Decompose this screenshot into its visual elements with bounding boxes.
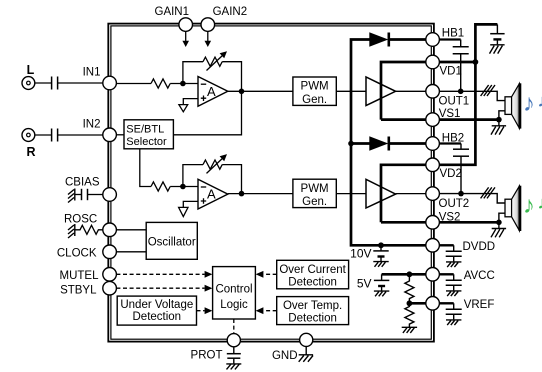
pin VD2 <box>426 158 440 172</box>
svg-text:GND: GND <box>272 350 298 362</box>
pin VREF <box>426 297 440 311</box>
node dot CB1/OUT1 <box>458 89 464 95</box>
svg-text:HB1: HB1 <box>442 28 464 40</box>
wire IN1 to R-in1 <box>116 83 151 85</box>
speaker 2 driver <box>505 199 512 217</box>
wire R-in2 to op-amp A2 <box>170 186 198 188</box>
svg-text:5V: 5V <box>357 277 372 291</box>
node dot 10V cap <box>378 242 384 248</box>
bootstrap diode D2 <box>369 136 388 151</box>
pin IN2 <box>103 128 117 142</box>
speaker 2 cone <box>512 186 520 231</box>
svg-text:VREF: VREF <box>464 299 495 311</box>
wire A2 + input to ground <box>183 201 198 207</box>
resistor R-in2 <box>151 182 170 191</box>
dashed Under Voltage Detection to Control Logic <box>197 310 205 312</box>
svg-text:PWM: PWM <box>301 183 329 195</box>
pin VS2 <box>426 216 440 230</box>
svg-text:Selector: Selector <box>126 136 167 148</box>
wire C-bias to CBIAS pin <box>88 194 104 196</box>
pin AVCC <box>426 268 440 282</box>
AVCC external cap wire (thick) <box>439 273 453 275</box>
VREF rail (thick) <box>409 302 425 305</box>
pin OUT2 <box>426 187 440 201</box>
Under Voltage Detection box <box>117 296 196 325</box>
PWM Gen 2 box <box>293 179 336 207</box>
svg-text:♫: ♫ <box>537 90 542 111</box>
wire R-in1 to op-amp A1 <box>170 83 198 85</box>
variable resistor RF2 <box>203 160 222 169</box>
op-amp A1 <box>198 77 228 107</box>
svg-text:PWM: PWM <box>301 81 329 93</box>
svg-text:VD2: VD2 <box>440 168 462 180</box>
AVCC 5V internal rail (thick) <box>382 273 426 276</box>
svg-text:A: A <box>207 84 216 99</box>
svg-text:MUTEL: MUTEL <box>60 270 100 282</box>
svg-text:CBIAS: CBIAS <box>65 177 100 189</box>
capacitor C-in2 <box>51 129 53 142</box>
wire A1 output to PWM Gen 1 <box>228 90 293 92</box>
power stage triangle 1 <box>366 77 396 106</box>
svg-text:DVDD: DVDD <box>463 241 496 253</box>
resistor divider R1 <box>405 274 414 303</box>
GAIN1 arrow <box>185 31 187 41</box>
feedback wire A2 <box>183 165 242 194</box>
wire ROSC to Oscillator <box>116 229 146 231</box>
node dot divider top <box>407 271 413 277</box>
svg-text:PROT: PROT <box>191 350 223 362</box>
node dot VREF tap <box>407 300 413 306</box>
speaker 1 driver <box>505 97 512 115</box>
svg-text:OUT1: OUT1 <box>439 96 470 108</box>
svg-text:Over Temp.: Over Temp. <box>283 300 342 312</box>
op-amp A2 <box>198 179 228 209</box>
svg-text:OUT2: OUT2 <box>439 198 470 210</box>
PWM Gen 1 box <box>293 77 336 105</box>
svg-text:R: R <box>26 145 35 159</box>
pin HB1 <box>426 33 440 47</box>
pin VS1 <box>426 113 440 127</box>
svg-text:VS1: VS1 <box>439 108 461 120</box>
wire L to C-in1 <box>35 82 51 84</box>
svg-text:Logic: Logic <box>220 299 248 311</box>
ground VS2 <box>491 222 506 237</box>
arrow RF2 <box>207 158 224 174</box>
svg-text:STBYL: STBYL <box>60 284 97 296</box>
resistor R-osc <box>75 225 103 234</box>
pin PROT <box>227 334 240 347</box>
dashed Over Temp Detection to Control Logic <box>263 310 276 312</box>
pin GAIN1 <box>179 18 193 32</box>
svg-text:HB2: HB2 <box>442 132 464 144</box>
capacitor 10V (polarized) <box>380 245 382 250</box>
capacitor top-right (polarized) <box>496 24 498 33</box>
svg-text:Control: Control <box>215 283 252 295</box>
node dot A2 inverting input <box>180 184 186 190</box>
ground DVDD cap <box>446 262 461 267</box>
variable resistor RF1 <box>203 57 222 66</box>
wire speaker 2 bottom to VS2 <box>499 213 505 222</box>
wire BTL link <box>173 91 241 135</box>
IC inner border <box>111 26 431 339</box>
ground 5V cap <box>374 291 389 296</box>
ground triangle A2 <box>179 207 188 216</box>
bootstrap capacitor CB1 <box>460 40 462 47</box>
node dot CB2/OUT2 <box>458 191 464 197</box>
arrow RF1 <box>207 55 224 71</box>
dashed Control Logic to PROT <box>233 319 235 334</box>
wire D2 to HB2 <box>389 142 426 145</box>
ground triangle A1 <box>179 105 188 112</box>
power stage box 1 (VD1/VS1 rails) <box>381 62 426 120</box>
wire rail to D2 <box>351 142 370 145</box>
svg-text:CLOCK: CLOCK <box>57 248 97 260</box>
DVDD external cap wire (thick) <box>439 244 453 246</box>
ground PROT <box>226 364 241 370</box>
svg-text:♪: ♪ <box>523 90 535 117</box>
feedback wire A1 <box>183 62 242 92</box>
svg-text:SE/BTL: SE/BTL <box>126 123 164 135</box>
svg-text:GAIN2: GAIN2 <box>213 6 248 18</box>
wire HB2 to bootstrap cap 2 <box>439 142 461 144</box>
svg-text:Detection: Detection <box>288 276 337 288</box>
10V internal rail (thick) <box>351 40 426 246</box>
ground (CBIAS, left-facing) <box>68 189 75 203</box>
resistor divider R2 <box>405 303 414 327</box>
RCA jack R <box>22 129 35 142</box>
dashed STBYL to Control Logic <box>116 287 204 289</box>
svg-text:AVCC: AVCC <box>464 270 495 282</box>
pin GAIN2 <box>201 18 215 32</box>
ground VREF cap <box>446 320 461 325</box>
power stage triangle 2 <box>366 179 396 208</box>
svg-text:L: L <box>27 63 35 77</box>
pin VD1 <box>426 55 440 69</box>
wire IN2 to SE/BTL <box>116 134 124 136</box>
ferrite bead OUT1 <box>481 85 495 96</box>
ground GND pin <box>299 346 313 362</box>
pin CBIAS <box>103 188 117 202</box>
pin DVDD <box>426 239 440 253</box>
svg-text:Detection: Detection <box>288 313 337 325</box>
dashed MUTEL to Control Logic <box>116 273 204 275</box>
VD1 tap to boost rail (thick) <box>439 61 476 64</box>
resistor R-in1 <box>151 79 170 88</box>
Control Logic box <box>213 267 256 319</box>
RCA jack L <box>22 77 35 90</box>
VS2 rail (thick) <box>439 221 499 224</box>
svg-text:IN1: IN1 <box>83 67 101 79</box>
VREF external cap wire (thick) <box>439 302 453 304</box>
wire C-in2 to IN2 <box>58 134 103 136</box>
node dot A1 output <box>239 89 245 95</box>
wire OUT1 from stage 1 <box>396 90 426 92</box>
wire speaker 1 bottom to VS1 <box>499 111 505 120</box>
capacitor C-in1 <box>51 77 53 90</box>
Over Current Detection box <box>277 260 349 289</box>
wire A2 output to PWM Gen 2 <box>228 193 293 195</box>
svg-text:Oscillator: Oscillator <box>148 236 196 248</box>
node dot VD1 tap <box>473 59 479 65</box>
svg-text:Over Current: Over Current <box>279 264 346 276</box>
capacitor PROT <box>233 347 235 353</box>
dashed Over Current Detection to Control Logic <box>263 273 276 275</box>
external boost rail (thick vertical) <box>439 24 497 164</box>
wire D1 to HB1 <box>389 38 426 41</box>
svg-text:Gen.: Gen. <box>302 94 327 106</box>
pin STBYL <box>103 281 117 295</box>
wire C-in1 to IN1 <box>58 82 103 84</box>
svg-text:Gen.: Gen. <box>302 196 327 208</box>
node dot 10V rail / D2 <box>348 141 354 147</box>
node dot A1 inverting input <box>180 81 186 87</box>
wire OUT2 to speaker <box>439 194 504 203</box>
pin OUT1 <box>426 85 440 99</box>
ground AVCC cap <box>446 291 461 296</box>
capacitor DVDD <box>453 245 455 250</box>
capacitor 5V (polarized) <box>381 274 383 280</box>
svg-text:VD1: VD1 <box>440 65 462 77</box>
GAIN2 arrow <box>207 31 209 41</box>
bootstrap capacitor CB2 <box>460 144 462 149</box>
svg-text:VS2: VS2 <box>439 211 461 223</box>
ground VS1 <box>491 120 506 135</box>
power stage box 2 (VD2/VS2 rails) <box>381 165 426 223</box>
pin GND <box>300 333 313 346</box>
ground divider <box>402 327 417 333</box>
ferrite bead OUT2 <box>481 187 495 198</box>
Over Temp Detection box <box>277 297 349 325</box>
pin ROSC <box>103 223 117 237</box>
wire OUT2 from stage 2 <box>396 193 426 195</box>
capacitor VREF <box>453 303 455 308</box>
Oscillator box <box>146 222 197 259</box>
ground top-right cap <box>490 45 505 54</box>
wire PWM2 to power stage 2 <box>336 193 366 195</box>
node dot A2 output <box>239 191 245 197</box>
bootstrap diode D1 <box>369 32 388 47</box>
svg-text:♪: ♪ <box>523 192 535 219</box>
svg-text:ROSC: ROSC <box>64 214 97 226</box>
pin MUTEL <box>103 268 117 282</box>
wire gnd to C-bias <box>75 194 82 196</box>
SE/BTL Selector box <box>124 120 173 149</box>
svg-text:♫: ♫ <box>537 192 542 213</box>
IC outer border <box>108 24 434 342</box>
wire CLOCK to Oscillator <box>116 251 146 253</box>
capacitor AVCC <box>453 274 455 279</box>
svg-text:Detection: Detection <box>133 311 182 323</box>
wire R to C-in2 <box>35 134 51 136</box>
ground 10V cap <box>373 262 388 267</box>
wire SE/BTL to R-in2 <box>140 149 151 187</box>
svg-text:GAIN1: GAIN1 <box>155 6 190 18</box>
wire A1 + input to ground <box>183 99 198 105</box>
svg-text:Under Voltage: Under Voltage <box>120 299 193 311</box>
node dot VS1 ground <box>496 117 502 123</box>
wire PWM1 to power stage 1 <box>336 90 366 92</box>
svg-text:A: A <box>207 187 216 202</box>
capacitor C-bias <box>81 189 83 200</box>
pin IN1 <box>103 76 117 90</box>
ground (ROSC, left-facing) <box>68 224 75 238</box>
pin HB2 <box>426 137 440 151</box>
svg-text:10V: 10V <box>350 247 371 261</box>
pin CLOCK <box>103 245 117 259</box>
wire OUT1 to speaker <box>439 91 504 100</box>
speaker 1 cone <box>512 84 520 129</box>
VS1 rail (thick) <box>439 118 499 121</box>
node dot VS2 ground <box>496 220 502 226</box>
svg-text:IN2: IN2 <box>83 119 101 131</box>
wire HB1 to bootstrap cap 1 <box>439 38 460 40</box>
